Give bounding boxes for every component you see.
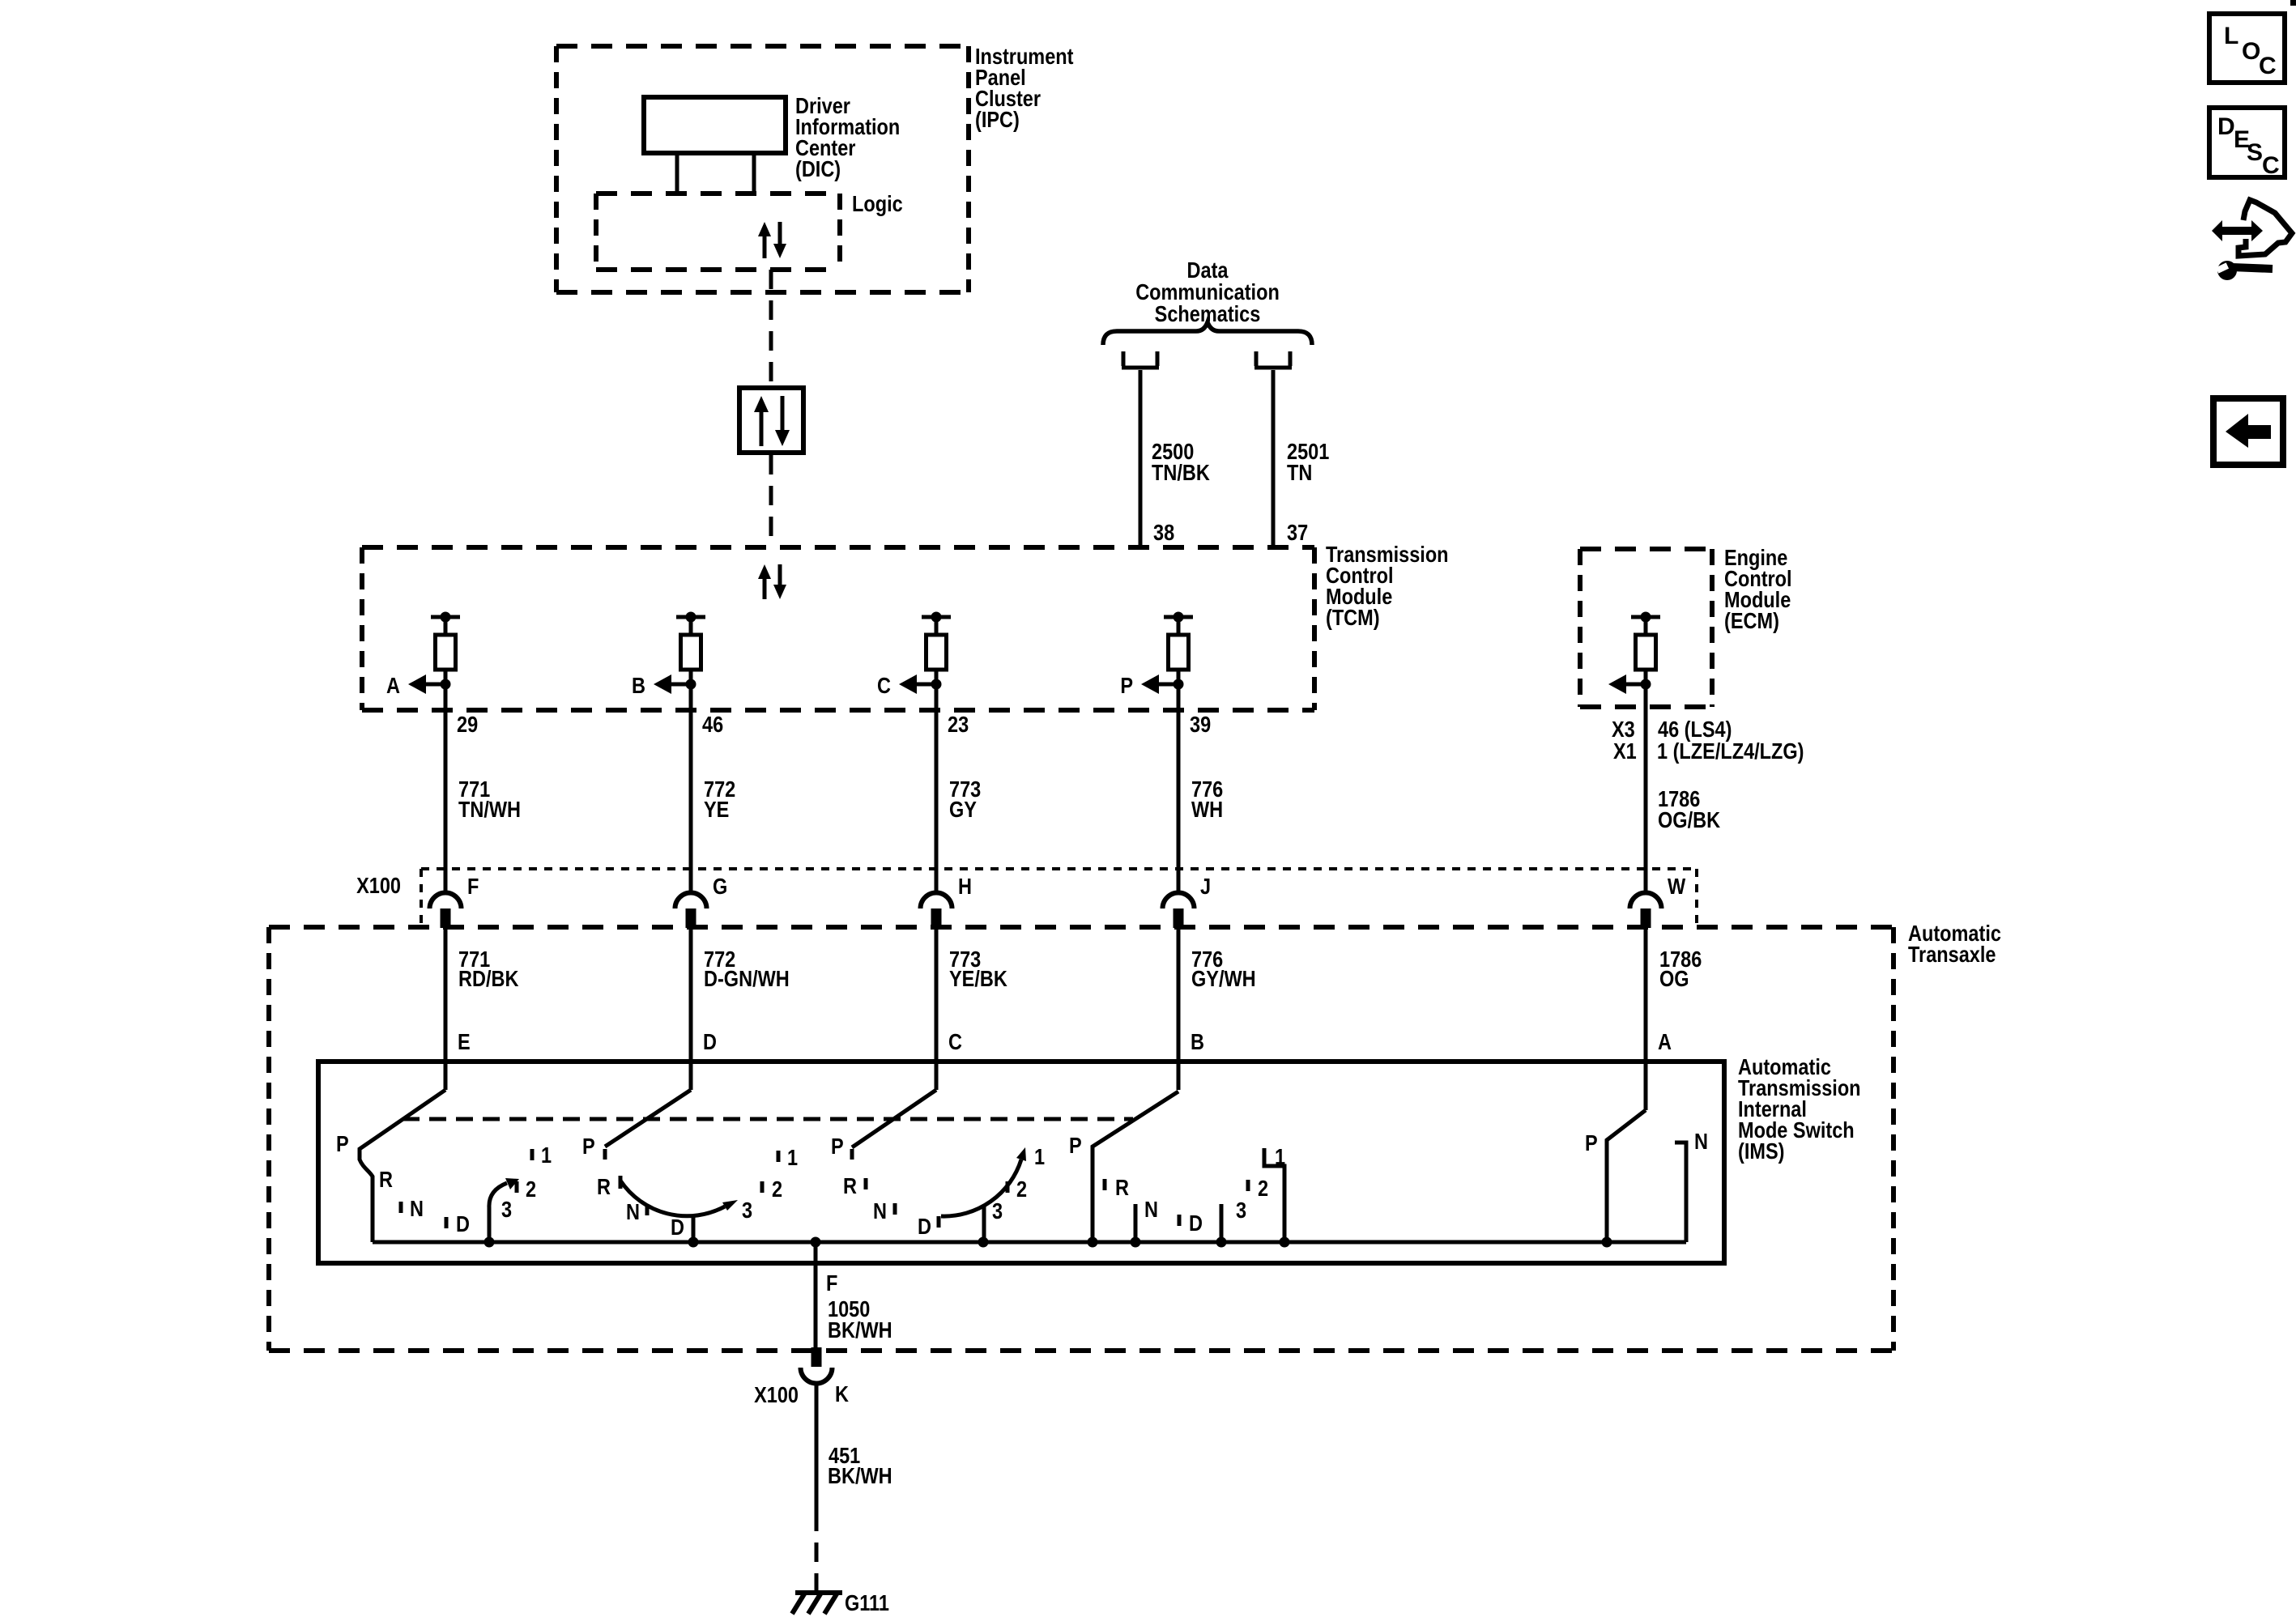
svg-text:1: 1 <box>541 1143 552 1168</box>
svg-text:W: W <box>1668 874 1686 899</box>
contact 2 switch 3 <box>1007 1177 1027 1202</box>
svg-text:J: J <box>1200 874 1211 899</box>
svg-text:BK/WH: BK/WH <box>828 1464 892 1488</box>
svg-text:R: R <box>843 1174 857 1198</box>
connector X100 dotted box <box>421 869 1697 925</box>
svg-text:2: 2 <box>526 1177 536 1202</box>
Driver Information Center (DIC) box <box>644 97 786 153</box>
svg-text:(IMS): (IMS) <box>1738 1139 1784 1164</box>
svg-text:TN: TN <box>1287 461 1312 485</box>
resistor TCM signal C <box>899 612 951 695</box>
svg-text:OG: OG <box>1659 967 1689 991</box>
svg-text:Communication: Communication <box>1135 280 1280 304</box>
svg-text:P: P <box>582 1134 595 1159</box>
wire 776 GY/WH <box>1177 928 1181 1090</box>
IMS switch 3 position arm D to 1 <box>941 1147 1026 1216</box>
svg-text:29: 29 <box>457 713 478 737</box>
wire switch 3 position 3 to bus <box>982 1206 986 1242</box>
svg-text:D: D <box>1189 1211 1203 1236</box>
svg-text:D: D <box>456 1212 470 1236</box>
Transmission Control Module (TCM) dashed box <box>362 547 1314 710</box>
svg-text:D: D <box>2217 113 2235 140</box>
label 776 GY/WH <box>1191 947 1256 991</box>
connector symbol serial data 1 <box>1122 351 1159 368</box>
svg-text:C: C <box>948 1030 962 1054</box>
IMS internal dashed line <box>403 1117 1133 1121</box>
svg-text:N: N <box>410 1197 424 1221</box>
svg-text:(ECM): (ECM) <box>1724 609 1779 633</box>
IMS switch 2 wiper arm from pin D <box>605 1090 691 1160</box>
svg-text:B: B <box>632 674 645 698</box>
contact 2 switch 4 <box>1248 1177 1268 1201</box>
svg-text:46: 46 <box>702 713 723 737</box>
svg-text:A: A <box>1658 1030 1672 1054</box>
brace for data communication schematics <box>1103 322 1312 345</box>
back arrow icon box <box>2213 398 2283 465</box>
svg-text:37: 37 <box>1287 521 1308 545</box>
junction F output on bus <box>811 1237 821 1248</box>
svg-text:P: P <box>831 1134 844 1159</box>
wire serial data link box to TCM (dashed) <box>769 455 773 545</box>
wire ECM output 1786 <box>1644 684 1648 893</box>
svg-text:3: 3 <box>501 1198 512 1222</box>
IMS switch 5 wiper arm from pin A to bus <box>1607 1110 1646 1242</box>
IMS switch 2 position arm R to 3 <box>620 1181 738 1216</box>
svg-text:3: 3 <box>742 1198 752 1223</box>
svg-text:P: P <box>1069 1134 1082 1158</box>
svg-text:N: N <box>626 1200 640 1224</box>
junction switch 1 to bus <box>484 1237 495 1248</box>
svg-text:OG/BK: OG/BK <box>1658 808 1721 832</box>
svg-text:WH: WH <box>1191 798 1223 822</box>
serial data arrows in Logic box <box>758 222 786 258</box>
IPC label <box>975 45 1074 132</box>
svg-text:R: R <box>1115 1176 1129 1200</box>
Automatic Transaxle label <box>1908 921 2001 967</box>
resistor TCM signal B <box>654 612 705 695</box>
contact N switch 5 wired to bus <box>1675 1130 1708 1242</box>
DESC icon box <box>2209 108 2285 179</box>
svg-text:3: 3 <box>992 1199 1003 1223</box>
junction N switch 4 to bus <box>1131 1237 1141 1248</box>
label 772 YE <box>704 777 735 822</box>
label 2500 TN/BK <box>1152 440 1210 485</box>
contact N switch 2 <box>626 1200 647 1224</box>
IMS switch 3 wiper arm from pin C <box>852 1090 936 1160</box>
junction switch 2 to bus <box>688 1237 699 1248</box>
svg-text:X100: X100 <box>754 1383 799 1407</box>
svg-text:GY: GY <box>949 798 977 822</box>
wire TCM P output <box>1177 684 1181 893</box>
svg-text:R: R <box>379 1168 393 1192</box>
junction 3 switch 4 to bus <box>1216 1237 1227 1248</box>
label 1050 BK/WH <box>828 1297 892 1343</box>
contact R switch 3 <box>843 1174 866 1198</box>
svg-text:38: 38 <box>1153 521 1174 545</box>
IMS common bus wire <box>373 1240 1686 1245</box>
svg-text:TN/WH: TN/WH <box>458 798 521 822</box>
svg-text:P: P <box>1120 674 1133 698</box>
DIC label <box>795 94 900 181</box>
wire TCM C output <box>935 684 939 893</box>
svg-text:Transaxle: Transaxle <box>1908 943 1996 967</box>
Instrument Panel Cluster (IPC) dashed box <box>556 46 969 292</box>
contact 1 switch 2 <box>778 1146 798 1170</box>
svg-text:YE: YE <box>704 798 729 822</box>
wire 773 YE/BK <box>935 928 939 1090</box>
svg-text:F: F <box>826 1271 837 1296</box>
resistor TCM signal A <box>408 612 460 695</box>
contact D switch 4 <box>1179 1211 1203 1236</box>
Automatic Transmission Internal Mode Switch (IMS) box <box>318 1062 1724 1263</box>
svg-text:S: S <box>2247 139 2263 166</box>
svg-text:P: P <box>336 1132 349 1156</box>
svg-text:G: G <box>713 874 727 899</box>
IMS switch 1 position arm to contact 2 <box>489 1178 519 1242</box>
svg-text:1: 1 <box>787 1146 798 1170</box>
svg-text:O: O <box>2242 38 2260 65</box>
svg-text:A: A <box>386 674 400 698</box>
wire TCM A output <box>444 684 448 893</box>
wire 451 BK/WH <box>815 1383 819 1512</box>
connector X100 pin G <box>675 893 707 929</box>
svg-text:23: 23 <box>948 713 969 737</box>
svg-text:F: F <box>467 874 479 899</box>
wire 771 RD/BK <box>444 928 448 1090</box>
svg-text:39: 39 <box>1190 713 1211 737</box>
wire serial data IPC to data-link box (dashed) <box>769 270 773 385</box>
wire DIC left stub <box>675 153 679 196</box>
wire DIC right stub <box>752 153 756 196</box>
contact R switch 4 <box>1105 1176 1129 1200</box>
resistor ECM <box>1608 612 1660 695</box>
svg-text:C: C <box>2262 152 2280 179</box>
svg-text:RD/BK: RD/BK <box>458 967 519 991</box>
resistor TCM signal P <box>1141 612 1193 695</box>
Logic dashed box <box>596 194 840 270</box>
wire F output from bus to X100 <box>814 1242 818 1349</box>
wire 1786 OG <box>1644 928 1648 1110</box>
serial data arrows in link box <box>754 396 790 446</box>
contact N switch 4 wired to bus <box>1135 1198 1158 1242</box>
svg-text:Logic: Logic <box>852 192 903 216</box>
svg-text:BK/WH: BK/WH <box>828 1318 892 1343</box>
connector symbol serial data 2 <box>1254 351 1292 368</box>
svg-text:X1: X1 <box>1613 739 1637 764</box>
connector X100 pin K <box>801 1347 833 1384</box>
contact R switch 2 <box>597 1175 620 1199</box>
junction switch 4 wiper to bus <box>1088 1237 1098 1248</box>
label 772 D-GN/WH <box>704 947 790 991</box>
IMS switch 1 wiper arm from pin E <box>360 1090 445 1242</box>
svg-text:L: L <box>2224 23 2238 49</box>
wire 2500 TN/BK <box>1139 370 1143 545</box>
TCM label <box>1326 543 1449 630</box>
IMS label <box>1738 1055 1861 1164</box>
label 771 RD/BK <box>458 947 519 991</box>
label 1786 OG <box>1659 947 1702 991</box>
LOC icon box <box>2209 14 2285 83</box>
contact 3 switch 4 wired to bus <box>1221 1198 1246 1242</box>
svg-text:2: 2 <box>1258 1177 1268 1201</box>
connector X100 pin H <box>921 893 952 929</box>
label 2501 TN <box>1287 440 1329 485</box>
svg-text:K: K <box>835 1382 849 1406</box>
ground G111 <box>792 1593 842 1614</box>
svg-text:1: 1 <box>1275 1145 1285 1169</box>
svg-text:1: 1 <box>1034 1145 1045 1169</box>
svg-text:TN/BK: TN/BK <box>1152 461 1210 485</box>
svg-text:2: 2 <box>772 1177 782 1202</box>
schematic navigation hand icon <box>2212 200 2292 280</box>
label 773 GY <box>949 777 981 822</box>
contact 2 switch 1 <box>517 1177 536 1202</box>
svg-text:X100: X100 <box>356 874 401 898</box>
svg-text:(DIC): (DIC) <box>795 157 841 181</box>
junction 1 switch 4 to bus <box>1280 1237 1290 1248</box>
label 776 WH <box>1191 777 1223 822</box>
contact 1 switch 1 <box>532 1143 552 1168</box>
Data Communication Schematics label <box>1135 258 1280 326</box>
svg-text:N: N <box>1144 1198 1158 1222</box>
svg-text:P: P <box>1585 1131 1598 1155</box>
svg-text:(TCM): (TCM) <box>1326 606 1380 630</box>
svg-text:D: D <box>671 1215 684 1240</box>
svg-text:D: D <box>918 1215 931 1239</box>
connector X100 pin J <box>1163 893 1195 929</box>
svg-text:D: D <box>703 1030 717 1054</box>
svg-text:B: B <box>1191 1030 1204 1054</box>
svg-text:46 (LS4): 46 (LS4) <box>1658 717 1732 742</box>
svg-text:E: E <box>458 1030 471 1054</box>
wire switch 2 D position to bus <box>692 1216 696 1242</box>
Engine Control Module (ECM) dashed box <box>1580 549 1712 707</box>
serial data arrows inside TCM <box>758 564 786 599</box>
svg-text:G111: G111 <box>845 1591 889 1615</box>
contact D switch 3 <box>918 1215 939 1239</box>
label 773 YE/BK <box>949 947 1007 991</box>
contact N switch 1 <box>401 1197 424 1221</box>
svg-text:N: N <box>873 1199 887 1223</box>
connector X100 pin W <box>1630 893 1662 929</box>
svg-text:2: 2 <box>1016 1177 1027 1202</box>
contact N switch 3 <box>873 1199 895 1223</box>
svg-text:Data: Data <box>1187 258 1229 283</box>
svg-text:C: C <box>877 674 891 698</box>
svg-text:R: R <box>597 1175 611 1199</box>
svg-text:X3: X3 <box>1612 717 1635 742</box>
svg-text:(IPC): (IPC) <box>975 108 1020 132</box>
wire TCM B output <box>689 684 693 893</box>
junction switch 5 wiper to bus <box>1602 1237 1612 1248</box>
IMS switch 4 wiper arm from pin B to bus <box>1093 1091 1178 1242</box>
label 771 TN/WH <box>458 777 521 822</box>
serial data link box <box>739 388 803 453</box>
svg-text:C: C <box>2259 53 2277 79</box>
svg-text:1 (LZE/LZ4/LZG): 1 (LZE/LZ4/LZG) <box>1657 739 1804 764</box>
svg-text:YE/BK: YE/BK <box>949 967 1007 991</box>
wire 772 D-GN/WH <box>689 928 693 1090</box>
junction switch 3 to bus <box>978 1237 989 1248</box>
svg-text:H: H <box>958 874 972 899</box>
pin X3 46 (LS4) ECM <box>1612 717 1732 742</box>
svg-text:GY/WH: GY/WH <box>1191 967 1256 991</box>
svg-text:D-GN/WH: D-GN/WH <box>704 967 790 991</box>
ECM label <box>1724 546 1792 633</box>
wire 2501 TN <box>1272 370 1276 545</box>
label 451 BK/WH <box>828 1444 892 1488</box>
page edge mark top right <box>2290 0 2296 6</box>
label 1786 OG/BK <box>1658 787 1721 832</box>
contact 2 switch 2 <box>762 1177 782 1202</box>
svg-text:3: 3 <box>1236 1198 1246 1223</box>
svg-text:N: N <box>1694 1130 1708 1154</box>
connector X100 pin F <box>430 893 462 929</box>
contact 1 switch 4 wired to bus <box>1264 1145 1285 1242</box>
contact D switch 1 <box>446 1212 470 1236</box>
pin X1 1 (LZE/LZ4/LZG) ECM <box>1613 739 1804 764</box>
Automatic Transaxle dashed box <box>269 927 1893 1351</box>
wire 451 BK/WH dashed to ground <box>815 1512 819 1590</box>
